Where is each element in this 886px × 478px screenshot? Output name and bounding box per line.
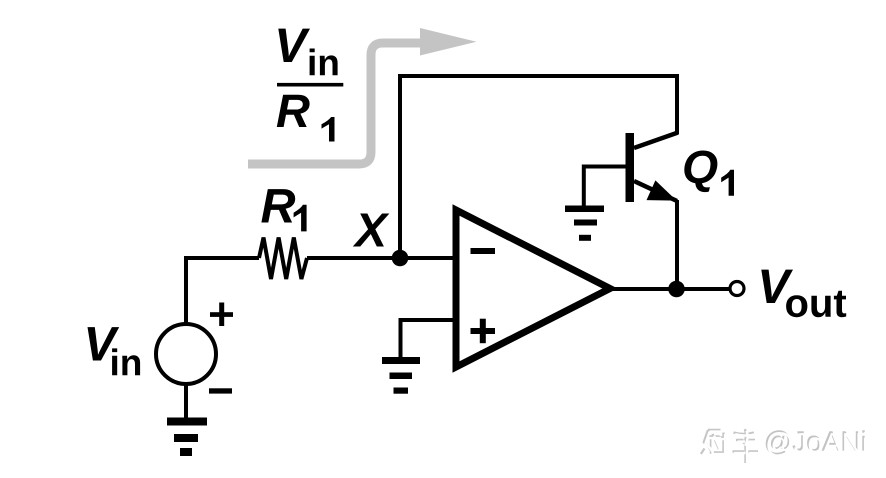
label Vout [761, 270, 846, 318]
watermark 知乎 @JoANi [701, 429, 758, 463]
ground (op-amp plus input) [382, 357, 420, 394]
label Vin [88, 327, 141, 375]
node output junction [668, 281, 685, 298]
wire op-amp plus input to ground [401, 320, 457, 357]
wire op-amp output to Vout terminal [610, 287, 730, 291]
wire source to resistor [186, 258, 259, 324]
wire source to ground [184, 384, 188, 420]
terminal Vout (open circle) [730, 282, 744, 296]
label Q1 [684, 151, 734, 196]
label − (source polarity) [209, 388, 232, 393]
node X junction [392, 250, 409, 267]
voltage source Vin [156, 324, 216, 384]
wire minus input from node X [307, 256, 456, 260]
wire Q1 emitter to output node [675, 200, 679, 289]
ground (source) [167, 418, 207, 457]
resistor R1 [259, 238, 307, 280]
label X [353, 214, 390, 247]
op-amp U1 [456, 210, 610, 367]
wire feedback: node X up, across top, down to Q1 collector [400, 76, 677, 258]
ground (Q1 base) [565, 206, 604, 241]
label Vin/R1 fraction [277, 29, 344, 142]
transistor Q1 [626, 133, 679, 203]
wire Q1 base lead [584, 167, 626, 207]
label R1 [261, 189, 306, 231]
current arrow Vin/R1 (gray flow indicator) [248, 28, 477, 164]
label + (source polarity) [210, 303, 233, 327]
